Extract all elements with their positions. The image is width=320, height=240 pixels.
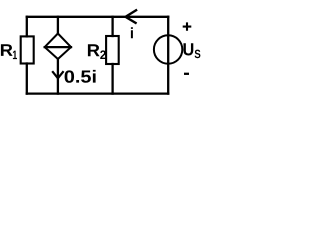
wire bottom horizontal — [27, 92, 168, 94]
wire R2 stub (top wire to R2) — [111, 17, 113, 36]
voltage source Us body (circle) — [154, 35, 182, 63]
resistor R1 body — [21, 36, 34, 63]
dependent source mid bar — [45, 46, 71, 48]
arrowhead 0.5i current direction (down) — [52, 71, 63, 78]
label R1 — [1, 44, 13, 56]
arrowhead current i (left) on top wire — [126, 10, 137, 24]
plus sign of Us — [183, 22, 192, 30]
wire dependent-source stub (top wire to diamond) — [57, 17, 59, 34]
minus sign of Us — [184, 73, 189, 75]
wire R2 to bottom wire — [111, 64, 113, 94]
wire right rail through source — [167, 17, 169, 94]
label 0.5i — [65, 70, 74, 82]
wire left rail lower (R1 to bottom wire) — [26, 64, 28, 94]
label R2 — [88, 44, 100, 56]
wire dependent source to bottom wire — [57, 59, 59, 94]
label Us — [183, 43, 193, 55]
wire top horizontal — [27, 16, 168, 18]
resistor R2 body — [106, 36, 119, 64]
label i — [131, 27, 133, 38]
dependent current source body (diamond) — [45, 34, 71, 60]
wire left rail upper (top wire to R1) — [26, 17, 28, 37]
